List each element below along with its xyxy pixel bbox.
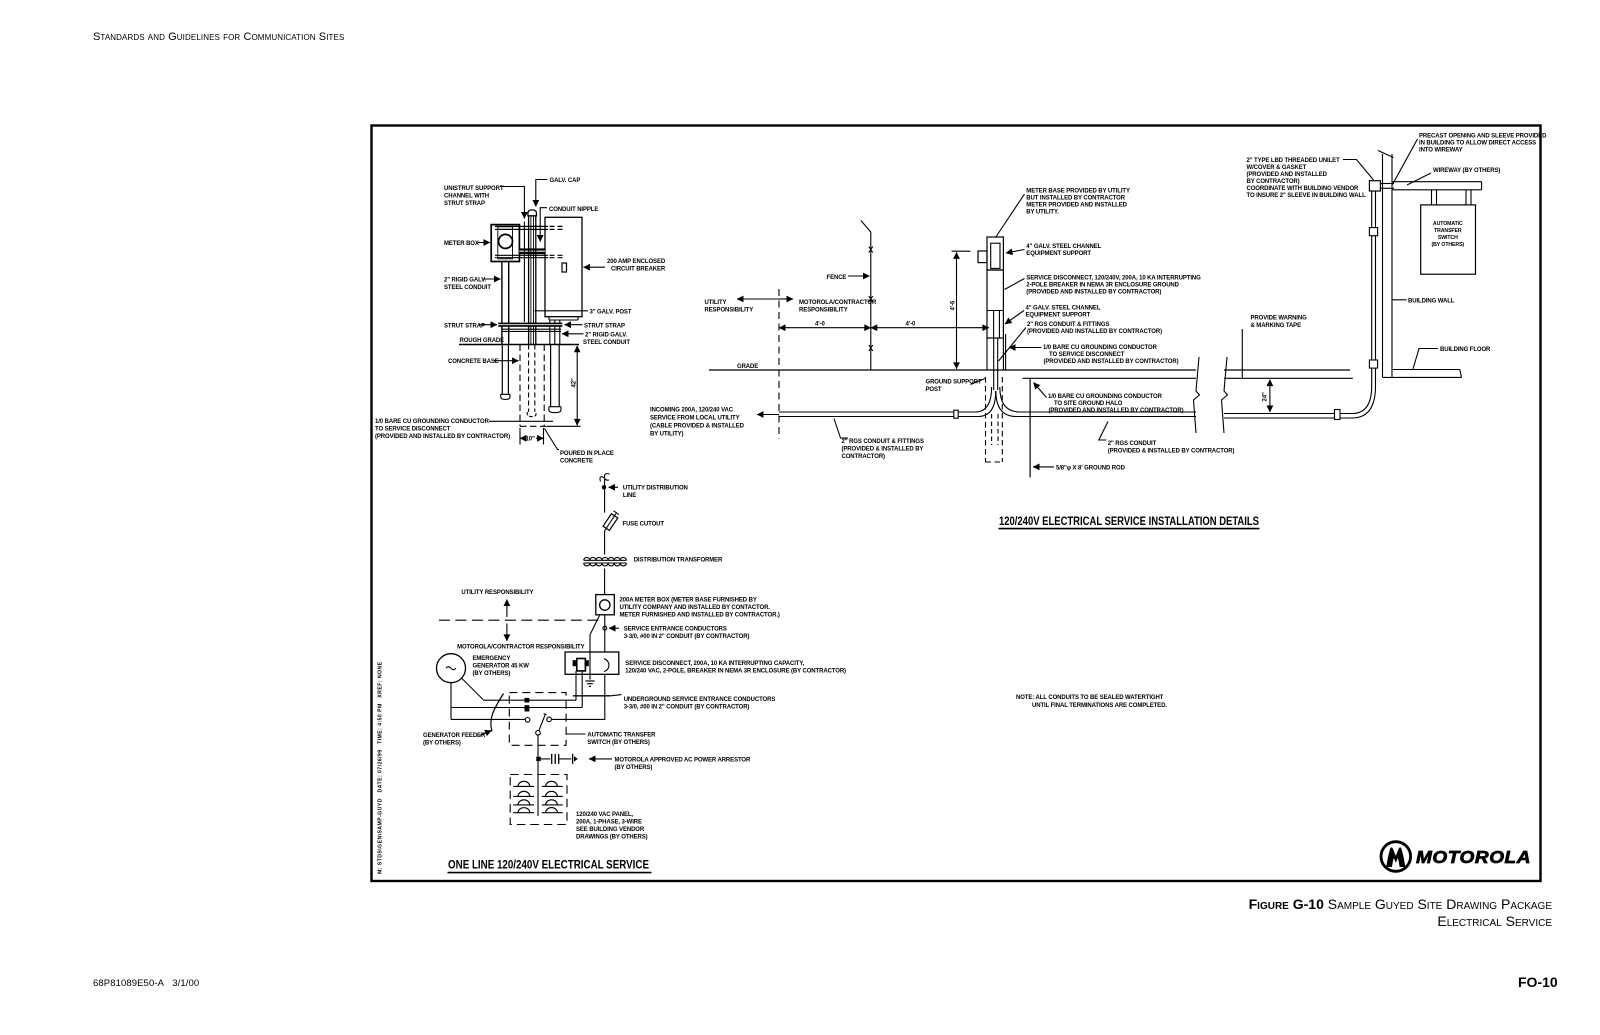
svg-text:METER BASE PROVIDED BY UTILITY: METER BASE PROVIDED BY UTILITY [1026, 189, 1130, 195]
svg-text:STEEL CONDUIT: STEEL CONDUIT [583, 340, 630, 346]
conduit from meter box (2in rigid) [501, 262, 503, 345]
conduit sweep left elbow [975, 387, 992, 412]
200 amp enclosed circuit breaker box [545, 217, 582, 316]
channel legs to grade [986, 338, 988, 370]
svg-text:NOTE: ALL CONDUITS TO BE SEALE: NOTE: ALL CONDUITS TO BE SEALED WATERTIG… [1016, 695, 1164, 701]
node dot [602, 486, 605, 489]
svg-text:4'-0: 4'-0 [906, 322, 916, 328]
svg-text:(CABLE PROVIDED & INSTALLED: (CABLE PROVIDED & INSTALLED [650, 424, 745, 430]
svg-text:2" TYPE LBD THREADED UNILET: 2" TYPE LBD THREADED UNILET [1247, 158, 1341, 164]
label poured in place concrete w/ leader [545, 429, 560, 450]
svg-text:MOTOROLA APPROVED AC POWER ARR: MOTOROLA APPROVED AC POWER ARRESTOR [615, 758, 751, 764]
main service drop wire (top) [604, 479, 606, 513]
svg-text:120/240V ELECTRICAL SERVICE IN: 120/240V ELECTRICAL SERVICE INSTALLATION… [999, 516, 1259, 528]
tap node [603, 626, 607, 630]
Motorola logo emblem [1381, 842, 1411, 872]
svg-text:68P81089E50-A 3/1/00: 68P81089E50-A 3/1/00 [93, 978, 199, 989]
label utility distribution line w/ arrow [609, 486, 619, 488]
svg-text:CIRCUIT BREAKER: CIRCUIT BREAKER [611, 267, 666, 273]
svg-text:UTILITY DISTRIBUTION: UTILITY DISTRIBUTION [623, 486, 688, 492]
svg-text:POST: POST [926, 387, 942, 393]
vertical dim 4'-6 [952, 250, 971, 252]
svg-text:GENERATOR FEEDER: GENERATOR FEEDER [423, 733, 486, 739]
svg-text:BY UTILITY.: BY UTILITY. [1026, 210, 1059, 216]
neutral bus [573, 695, 611, 697]
couplings on right run [1335, 410, 1341, 420]
boundary arrows [737, 298, 779, 300]
svg-text:M: STDS\GEN\SAMP-GUYD DATE:: M: STDS\GEN\SAMP-GUYD DATE: 07/26/99 TIM… [378, 661, 384, 874]
svg-text:SEE BUILDING VENDOR: SEE BUILDING VENDOR [576, 827, 645, 833]
label service entrance conductors w/ arrow [609, 627, 619, 629]
svg-text:BUILDING FLOOR: BUILDING FLOOR [1440, 347, 1491, 353]
svg-text:(BY OTHERS): (BY OTHERS) [615, 765, 653, 771]
unistrut leader w/ arrow [500, 187, 524, 219]
svg-text:CONDUIT NIPPLE: CONDUIT NIPPLE [549, 207, 598, 213]
conduit nipple band [519, 248, 545, 254]
svg-text:3" GALV. POST: 3" GALV. POST [590, 310, 632, 316]
wire transformer to meter [604, 569, 606, 595]
svg-text:UTILITY: UTILITY [705, 300, 727, 306]
svg-text:MOTOROLA/CONTRACTOR RESPONSIBI: MOTOROLA/CONTRACTOR RESPONSIBILITY [457, 645, 584, 651]
svg-text:TO INSURE 2" SLEEVE IN BUILDIN: TO INSURE 2" SLEEVE IN BUILDING WALL [1247, 193, 1367, 199]
generator feeder break mark [491, 694, 504, 732]
svg-text:4" GALV. STEEL CHANNEL: 4" GALV. STEEL CHANNEL [1026, 244, 1101, 250]
galv cap [528, 210, 537, 216]
svg-text:Electrical Service: Electrical Service [1437, 913, 1552, 929]
grounding conductor leader [489, 420, 553, 422]
svg-text:(PROVIDED AND INSTALLED BY CON: (PROVIDED AND INSTALLED BY CONTRACTOR) [1026, 290, 1161, 296]
label automatic transfer switch w/ leader [567, 733, 586, 735]
label arrestor w/ arrow [589, 758, 612, 760]
svg-text:(PROVIDED AND INSTALLED BY CON: (PROVIDED AND INSTALLED BY CONTRACTOR) [1027, 329, 1162, 335]
svg-text:10": 10" [526, 437, 535, 443]
concrete base outline (hidden) [519, 345, 521, 427]
3in galv post leader line [535, 310, 588, 312]
panel breaker row 2 [513, 795, 534, 797]
load wire from disconnect [551, 674, 604, 719]
svg-text:TRANSFER: TRANSFER [1434, 228, 1462, 234]
svg-text:UTILITY COMPANY AND INSTALLED: UTILITY COMPANY AND INSTALLED BY CONTACT… [620, 605, 771, 611]
dim line 4'-0 / 4'-0 [779, 327, 871, 329]
ground rod [1029, 378, 1031, 477]
meter base enclosure [987, 237, 1003, 270]
emergency generator [437, 654, 466, 683]
svg-text:UNDERGROUND SERVICE ENTRANCE C: UNDERGROUND SERVICE ENTRANCE CONDUCTORS [624, 697, 776, 703]
svg-text:4" GALV. STEEL CHANNEL: 4" GALV. STEEL CHANNEL [1026, 306, 1101, 312]
svg-text:CONTRACTOR): CONTRACTOR) [842, 454, 886, 460]
service disconnect enclosure [987, 270, 1003, 338]
svg-text:2" RGS CONDUIT: 2" RGS CONDUIT [1108, 441, 1157, 447]
switch contacts [525, 718, 530, 723]
svg-text:1/0 BARE CU GROUNDING CONDUCTO: 1/0 BARE CU GROUNDING CONDUCTOR [1043, 345, 1158, 351]
service disconnect enclosure [565, 652, 619, 674]
lower unistrut rails [502, 328, 561, 330]
svg-text:BUT INSTALLED BY CONTRACTOR: BUT INSTALLED BY CONTRACTOR [1026, 196, 1125, 202]
breaker arc [604, 659, 609, 672]
riser couplings [1369, 228, 1377, 236]
strut strap band [498, 323, 562, 327]
svg-text:BUILDING WALL: BUILDING WALL [1408, 298, 1455, 304]
svg-text:STRUT STRAP: STRUT STRAP [444, 323, 485, 329]
svg-text:1/0 BARE CU GROUNDING CONDUCTO: 1/0 BARE CU GROUNDING CONDUCTOR [1048, 394, 1163, 400]
conduit right run [1020, 411, 1196, 413]
meter box inner panel [498, 227, 513, 259]
svg-text:SERVICE DISCONNECT, 120/240V,: SERVICE DISCONNECT, 120/240V, 200A, 10 K… [1026, 276, 1201, 282]
svg-text:SERVICE ENTRANCE CONDUCTORS: SERVICE ENTRANCE CONDUCTORS [624, 627, 727, 633]
unistrut rail upper [495, 225, 548, 227]
svg-text:(PROVIDED AND INSTALLED: (PROVIDED AND INSTALLED [1247, 172, 1328, 178]
neutral bond wire [590, 615, 600, 679]
svg-text:& MARKING TAPE: & MARKING TAPE [1251, 323, 1302, 329]
svg-text:200A, 1-PHASE, 3-WIRE: 200A, 1-PHASE, 3-WIRE [576, 820, 642, 826]
coupling on left run [954, 410, 958, 418]
arrestor tap node [536, 757, 540, 761]
label underground service entrance w/ leader [611, 695, 622, 696]
drawing border frame [372, 126, 1541, 882]
svg-text:Figure G-10 Sample Guyed Site: Figure G-10 Sample Guyed Site Drawing Pa… [1249, 896, 1553, 912]
svg-text:AUTOMATIC: AUTOMATIC [1433, 221, 1463, 227]
unistrut rail lower [495, 254, 548, 256]
riser conduit [1371, 191, 1373, 386]
breaker box bottom flange [549, 319, 578, 321]
post below grade (hidden) w/ end bell [528, 345, 530, 412]
svg-text:STRUT STRAP: STRUT STRAP [444, 201, 485, 207]
vertical dim 42in [576, 346, 578, 426]
ground halo wire [1023, 377, 1197, 379]
panel breaker row 3 [513, 804, 534, 806]
wire fuse to transformer [604, 531, 606, 555]
boundary arrows up/down [506, 600, 508, 618]
wireway [1392, 181, 1482, 183]
svg-text:GENERATOR 45 KW: GENERATOR 45 KW [473, 664, 530, 670]
svg-text:IN BUILDING TO ALLOW DIRECT AC: IN BUILDING TO ALLOW DIRECT ACCESS [1419, 141, 1536, 147]
meter box [491, 225, 519, 262]
svg-text:TO SERVICE DISCONNECT: TO SERVICE DISCONNECT [1049, 352, 1125, 358]
svg-text:POURED IN PLACE: POURED IN PLACE [560, 451, 614, 457]
panel breaker row 1 [513, 785, 534, 787]
generator feeder wires [462, 678, 484, 700]
fence post [870, 232, 872, 370]
svg-text:DRAWINGS (BY OTHERS): DRAWINGS (BY OTHERS) [576, 835, 648, 841]
svg-text:(BY OTHERS): (BY OTHERS) [1432, 242, 1465, 248]
svg-text:DISTRIBUTION TRANSFORMER: DISTRIBUTION TRANSFORMER [634, 558, 723, 564]
svg-text:UNISTRUT SUPPORT: UNISTRUT SUPPORT [444, 186, 504, 192]
conduit sweep right elbow [1000, 387, 1020, 412]
unistrut channel upright [523, 222, 525, 323]
svg-text:TO SERVICE DISCONNECT: TO SERVICE DISCONNECT [375, 427, 451, 433]
svg-text:UTILITY RESPONSIBILITY: UTILITY RESPONSIBILITY [461, 590, 533, 596]
svg-text:24": 24" [1263, 392, 1269, 401]
svg-text:2" RGS CONDUIT & FITTINGS: 2" RGS CONDUIT & FITTINGS [842, 439, 924, 445]
svg-text:FENCE: FENCE [827, 275, 847, 281]
panel breaker row 4 [513, 812, 534, 814]
svg-text:42": 42" [572, 378, 578, 387]
2in rgs conduit drop [993, 338, 995, 390]
label 2in rgs conduit+fittings (left) w/ leader [834, 419, 848, 439]
LB fitting [1369, 181, 1380, 191]
building floor slab [1392, 369, 1460, 371]
svg-text:(PROVIDED AND INSTALLED BY CON: (PROVIDED AND INSTALLED BY CONTRACTOR) [375, 434, 510, 440]
svg-text:PROVIDE WARNING: PROVIDE WARNING [1251, 316, 1308, 322]
ground symbol [585, 680, 594, 682]
svg-text:(PROVIDED AND INSTALLED BY CON: (PROVIDED AND INSTALLED BY CONTRACTOR) [1049, 408, 1184, 414]
ground support post (hidden) [985, 377, 987, 462]
svg-text:BY UTILITY): BY UTILITY) [650, 432, 684, 438]
svg-text:SWITCH (BY OTHERS): SWITCH (BY OTHERS) [587, 740, 650, 746]
svg-text:METER PROVIDED AND INSTALLED: METER PROVIDED AND INSTALLED [1026, 203, 1127, 209]
svg-text:BY CONTRACTOR): BY CONTRACTOR) [1247, 179, 1300, 185]
conduit stub through wall [1380, 183, 1394, 185]
wireway hangers [1431, 190, 1433, 205]
fence barb arm [861, 221, 871, 233]
svg-text:200 AMP ENCLOSED: 200 AMP ENCLOSED [607, 259, 666, 265]
svg-text:TO SITE GROUND HALO: TO SITE GROUND HALO [1054, 401, 1123, 407]
svg-text:LINE: LINE [623, 493, 636, 499]
meter socket ring [499, 234, 513, 248]
svg-text:EQUIPMENT SUPPORT: EQUIPMENT SUPPORT [1026, 251, 1091, 257]
panel dashed enclosure [510, 775, 567, 825]
svg-text:GALV. CAP: GALV. CAP [550, 178, 581, 184]
incoming service conduit (left run) [779, 411, 975, 413]
svg-text:GROUND SUPPORT: GROUND SUPPORT [926, 380, 982, 386]
svg-text:RESPONSIBILITY: RESPONSIBILITY [705, 308, 754, 314]
utility/contractor boundary (dashed) [778, 289, 780, 439]
linkage blocks [525, 698, 530, 703]
svg-text:(PROVIDED AND INSTALLED BY CON: (PROVIDED AND INSTALLED BY CONTRACTOR) [1044, 359, 1179, 365]
breaker conduit below grade w/ end bell [550, 345, 552, 407]
svg-text:WIREWAY (BY OTHERS): WIREWAY (BY OTHERS) [1433, 168, 1500, 174]
svg-text:FUSE CUTOUT: FUSE CUTOUT [623, 522, 665, 528]
fence wire tie X marks [869, 247, 873, 253]
svg-text:120/240 VAC PANEL,: 120/240 VAC PANEL, [576, 812, 633, 818]
AC power arrestor [541, 758, 551, 760]
concrete bottom extension to dim [547, 425, 581, 427]
breaker handle [562, 263, 567, 272]
svg-text:CONCRETE BASE: CONCRETE BASE [448, 359, 499, 365]
svg-text:MOTOROLA/CONTRACTOR: MOTOROLA/CONTRACTOR [799, 300, 877, 306]
meter conduit below grade w/ end bell [501, 345, 503, 395]
svg-text:5/8"φ X 8' GROUND ROD: 5/8"φ X 8' GROUND ROD [1056, 466, 1126, 472]
3in galv post [528, 216, 530, 345]
svg-text:INTO WIREWAY: INTO WIREWAY [1419, 148, 1463, 154]
conduit from breaker box [549, 320, 551, 345]
automatic transfer switch box [1421, 205, 1476, 274]
svg-text:INCOMING 200A, 120/240 VAC: INCOMING 200A, 120/240 VAC [650, 408, 734, 414]
svg-text:ROUGH GRADE: ROUGH GRADE [460, 338, 505, 344]
svg-text:MOTOROLA: MOTOROLA [1416, 847, 1531, 867]
inner channel lines [993, 311, 995, 339]
svg-text:STEEL CONDUIT: STEEL CONDUIT [444, 285, 491, 291]
svg-text:SERVICE DISCONNECT, 200A, 10 K: SERVICE DISCONNECT, 200A, 10 KA INTERRUP… [625, 661, 804, 667]
svg-text:ONE LINE 120/240V ELECTRICAL S: ONE LINE 120/240V ELECTRICAL SERVICE [448, 860, 649, 872]
svg-text:METER BOX: METER BOX [444, 241, 479, 247]
svg-text:UNTIL FINAL TERMINATIONS ARE C: UNTIL FINAL TERMINATIONS ARE COMPLETED. [1032, 703, 1167, 709]
svg-text:120/240 VAC, 2-POLE, BREAKER I: 120/240 VAC, 2-POLE, BREAKER IN NEMA 3R … [625, 669, 846, 675]
utility distribution line curl [600, 474, 610, 482]
building wall [1382, 154, 1384, 377]
fuse cutout [605, 514, 616, 531]
svg-text:1/0 BARE CU GROUNDING CONDUCTO: 1/0 BARE CU GROUNDING CONDUCTOR [375, 419, 490, 425]
svg-text:PRECAST OPENING AND SLEEVE PRO: PRECAST OPENING AND SLEEVE PROVIDED [1419, 134, 1547, 140]
grade line [709, 369, 1196, 371]
svg-text:(BY OTHERS): (BY OTHERS) [473, 671, 511, 677]
wires from disconnect [575, 671, 577, 700]
breaker element [577, 659, 586, 671]
conduit hidden inside post [991, 414, 993, 445]
conduit nipple leader [540, 208, 547, 242]
wire meter to disconnect [604, 615, 606, 652]
rough grade line [459, 344, 579, 346]
switch blade [539, 715, 545, 731]
incoming service arrow [757, 414, 779, 416]
svg-text:2" RGS CONDUIT & FITTINGS: 2" RGS CONDUIT & FITTINGS [1027, 322, 1109, 328]
svg-text:4'-6: 4'-6 [951, 300, 957, 310]
galv cap leader [536, 180, 548, 207]
svg-text:RESPONSIBILITY: RESPONSIBILITY [799, 308, 848, 314]
break marks [1194, 357, 1200, 433]
200A meter box [596, 595, 615, 615]
conduit sweep to building riser [1352, 386, 1372, 414]
wire ATS to panel [537, 735, 539, 816]
svg-text:4'-0: 4'-0 [815, 322, 825, 328]
svg-text:2" RIGID GALV.: 2" RIGID GALV. [585, 333, 628, 339]
label ground rod w/ arrow [1033, 466, 1054, 468]
channel bracket [978, 251, 987, 263]
svg-text:3-3/0, #00 IN 2" CONDUIT (BY C: 3-3/0, #00 IN 2" CONDUIT (BY CONTRACTOR) [624, 634, 750, 640]
dim 24in tape depth [1269, 380, 1271, 412]
svg-text:METER FURNISHED AND INSTALLED: METER FURNISHED AND INSTALLED BY CONTRAC… [620, 613, 780, 619]
dim 10in extension lines [519, 428, 521, 445]
svg-text:EQUIPMENT SUPPORT: EQUIPMENT SUPPORT [1026, 313, 1091, 319]
svg-text:FO-10: FO-10 [1518, 974, 1558, 990]
svg-text:EMERGENCY: EMERGENCY [473, 656, 511, 662]
svg-text:3-3/0, #00 IN 2" CONDUIT (BY C: 3-3/0, #00 IN 2" CONDUIT (BY CONTRACTOR) [624, 705, 750, 711]
svg-text:SERVICE FROM LOCAL UTILITY: SERVICE FROM LOCAL UTILITY [650, 416, 740, 422]
responsibility boundary (dashed) [439, 619, 602, 621]
svg-text:(PROVIDED & INSTALLED BY: (PROVIDED & INSTALLED BY [842, 447, 924, 453]
svg-text:2" RIGID GALV.: 2" RIGID GALV. [444, 278, 487, 284]
svg-text:STRUT STRAP: STRUT STRAP [584, 323, 625, 329]
distribution transformer [584, 557, 627, 560]
grounding conductor on channel [1005, 334, 1007, 370]
svg-text:SWITCH: SWITCH [1438, 235, 1458, 241]
svg-text:(PROVIDED & INSTALLED BY CONTR: (PROVIDED & INSTALLED BY CONTRACTOR) [1108, 449, 1235, 455]
svg-text:AUTOMATIC TRANSFER: AUTOMATIC TRANSFER [587, 733, 656, 739]
svg-text:2-POLE BREAKER IN NEMA 3R ENCL: 2-POLE BREAKER IN NEMA 3R ENCLOSURE GROU… [1026, 283, 1179, 289]
svg-text:(BY OTHERS): (BY OTHERS) [423, 741, 461, 747]
label 2in rgs conduit (right) w/ leader [1099, 422, 1108, 441]
svg-text:CHANNEL WITH: CHANNEL WITH [444, 194, 489, 200]
pedestal divider [987, 310, 1003, 312]
svg-text:Standards and Guidelines for: Standards and Guidelines for Communicati… [93, 31, 344, 43]
svg-text:200A METER BOX (METER BASE FUR: 200A METER BOX (METER BASE FURNISHED BY [620, 598, 757, 604]
svg-text:GRADE: GRADE [737, 364, 758, 370]
dim 10in [520, 437, 524, 439]
svg-text:COORDINATE WITH BUILDING VENDO: COORDINATE WITH BUILDING VENDOR [1247, 186, 1360, 192]
ATS dashed enclosure [509, 693, 566, 746]
svg-text:CONCRETE: CONCRETE [560, 459, 593, 465]
svg-text:W/COVER & GASKET: W/COVER & GASKET [1247, 165, 1307, 171]
